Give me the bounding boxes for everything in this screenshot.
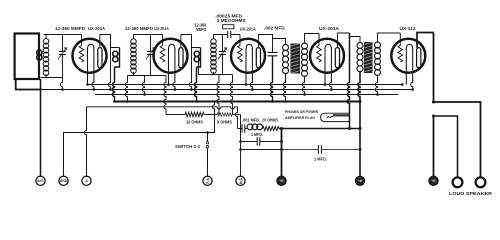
junction [109, 88, 112, 91]
V4 plate [335, 48, 339, 68]
wire plate branch [189, 48, 191, 90]
terminal +B power [429, 176, 438, 185]
wire V4 plate drop [347, 33, 349, 129]
wire tank2 drop [142, 76, 144, 95]
V2 tube envelope [154, 39, 188, 73]
loop antenna box [15, 34, 39, 80]
AFT1 secondary coil [302, 43, 308, 49]
svg-text:+B: +B [279, 179, 284, 183]
wire B power stem [433, 116, 435, 176]
wire speaker feed 2 [434, 116, 458, 177]
junction [280, 148, 283, 151]
junction [143, 93, 146, 96]
wire [232, 114, 241, 116]
V3 plate lead [258, 35, 272, 53]
V4 tube envelope [310, 39, 344, 73]
AFT2 secondary coil [375, 42, 381, 48]
svg-text:8 OHMS: 8 OHMS [217, 120, 232, 125]
V5 grid lead [399, 33, 401, 46]
RFT2 primary [197, 48, 201, 68]
RFT1 primary return [112, 67, 114, 102]
wire rheostat feed [164, 76, 166, 115]
terminal GND [59, 176, 68, 185]
bus A+ line [88, 84, 403, 86]
junction [174, 88, 177, 91]
wire [240, 115, 242, 177]
junction [432, 115, 435, 118]
wire terminal C stem [84, 107, 86, 176]
svg-text:-B: -B [239, 181, 243, 185]
coil L4 secondary [211, 39, 217, 45]
svg-text:MMFD: MMFD [196, 27, 206, 32]
junction [213, 100, 216, 103]
wire antenna lead [40, 79, 42, 176]
V3 grid [238, 46, 243, 63]
svg-text:12-360 MMFD: 12-360 MMFD [55, 26, 85, 31]
junction [432, 101, 435, 104]
AFT1 secondary to V4 grid [305, 34, 320, 44]
V1 filament [87, 48, 89, 85]
V5 grid [398, 46, 403, 63]
junction [245, 83, 248, 86]
svg-text:UX-201A: UX-201A [154, 26, 169, 31]
terminal +B det [277, 176, 286, 185]
junction [239, 148, 242, 151]
svg-text:UX-201A: UX-201A [240, 26, 257, 31]
capacitor C6 .001 MFD [238, 128, 248, 130]
AFT2 secondary to V5 grid [378, 33, 401, 42]
wire tank1 drop [60, 78, 62, 90]
wire speaker feed 1 [434, 102, 481, 177]
AFT2 primary coil [357, 43, 363, 49]
V5 tube envelope [391, 39, 425, 73]
V1 plate [98, 48, 102, 68]
wire B detector stem [281, 129, 283, 177]
V3 grid lead [239, 35, 241, 46]
junction [61, 88, 64, 91]
junction [195, 100, 198, 103]
junction [376, 93, 379, 96]
AFT1 secondary return [302, 76, 304, 95]
svg-text:+B: +B [358, 179, 363, 183]
junction [359, 148, 362, 151]
loud speaker terminal 2 [476, 177, 486, 187]
svg-text:GND: GND [60, 179, 68, 183]
wire tank3 drop [230, 75, 232, 115]
wire C5 return [270, 56, 272, 101]
wire plate feed row [279, 128, 360, 130]
AFT2 primary return and B amplifier lead [358, 72, 360, 177]
svg-text:+B: +B [431, 179, 436, 183]
junction [271, 100, 274, 103]
V3 plate [256, 48, 260, 68]
junction [359, 100, 362, 103]
junction [280, 127, 283, 130]
V3 filament [245, 48, 247, 85]
svg-text:1 MFD.: 1 MFD. [251, 132, 263, 137]
terminal +B amp [355, 176, 364, 185]
wire [133, 35, 135, 76]
svg-text:UX-112: UX-112 [400, 26, 417, 31]
V2 filament [168, 48, 170, 85]
V1 plate lead [100, 35, 120, 48]
V4 filament [324, 48, 326, 85]
wire [45, 35, 47, 78]
terminal -C [82, 176, 91, 185]
rheostat R3 8 OHMS [217, 113, 232, 117]
wire grid rail stage 1 [44, 34, 82, 36]
capacitor C5 .002 MFD [268, 52, 278, 55]
AFT1 core [291, 44, 301, 74]
RFT2 primary return [194, 67, 196, 102]
variable capacitor C1 12-360 MMFD [62, 35, 64, 52]
wire tank2 bottom [128, 75, 167, 77]
junction [206, 131, 209, 134]
junction [303, 93, 306, 96]
junction [39, 88, 42, 91]
antenna coupling coil L1 [37, 50, 42, 55]
junction [330, 88, 333, 91]
svg-text:LOUD SPEAKER: LOUD SPEAKER [449, 191, 493, 196]
bus line 5 partial [87, 107, 238, 129]
svg-text:20 OHMS: 20 OHMS [262, 118, 278, 123]
V3 tube envelope [231, 39, 265, 73]
junction [167, 83, 170, 86]
svg-text:.001 MFD.: .001 MFD. [242, 118, 260, 123]
wire plate branch [108, 48, 110, 90]
wire coil2 return [125, 76, 127, 102]
terminal +A -B [236, 176, 245, 185]
V5 plate lead [417, 33, 434, 48]
wire varcap3 drop [217, 75, 219, 115]
V2 grid [160, 46, 165, 63]
wire [213, 35, 215, 75]
terminal ANT [36, 176, 45, 185]
terminal -A +C [203, 176, 212, 185]
svg-text:ANT: ANT [37, 179, 44, 183]
junction [86, 83, 89, 86]
loud speaker terminal 1 [453, 177, 463, 187]
junction [113, 100, 116, 103]
svg-text:3 MEGOHMS: 3 MEGOHMS [217, 18, 246, 23]
V1 grid [79, 46, 84, 63]
AFT1 primary coil [283, 45, 289, 51]
resistor R4 20 OHMS [263, 126, 280, 130]
junction [324, 83, 327, 86]
capacitor C7 1 MFD [257, 137, 260, 145]
bus B+ heavy line [114, 101, 361, 103]
wire tank3 bottom [199, 56, 233, 75]
bus line 3 [95, 94, 398, 96]
V5 plate [417, 48, 421, 68]
coil L3 secondary [131, 39, 137, 45]
AFT1 primary lead [273, 39, 286, 45]
V2 plate lead [181, 35, 201, 48]
V1 grid lead [81, 35, 83, 46]
V1 tube envelope [73, 39, 107, 73]
junction [401, 83, 404, 86]
svg-text:UX-201A: UX-201A [88, 26, 106, 31]
wire [41, 77, 63, 79]
V2 grid lead [162, 35, 164, 46]
junction [126, 100, 129, 103]
wire [282, 149, 361, 151]
svg-text:10 OHMS: 10 OHMS [186, 120, 203, 125]
junction [190, 88, 193, 91]
wire [204, 114, 217, 116]
junction [239, 140, 242, 143]
RFT1 primary [115, 48, 120, 68]
junction [284, 100, 287, 103]
svg-text:SWITCH S-2: SWITCH S-2 [175, 144, 201, 149]
svg-text:.002 MFD: .002 MFD [264, 26, 285, 31]
junction [411, 88, 414, 91]
capacitor C8 1 MFD [318, 145, 321, 153]
AFT2 secondary return [375, 75, 377, 95]
wire grid rail stage 2 [134, 34, 163, 36]
AFT2 core [364, 42, 373, 73]
wire loop left leg [16, 79, 41, 90]
svg-text:1 MFD.: 1 MFD. [314, 157, 327, 162]
AFT1 primary return [283, 73, 285, 102]
svg-text:+C: +C [205, 181, 210, 185]
wire [241, 141, 282, 143]
svg-text:PHONES OR POWER: PHONES OR POWER [285, 109, 318, 114]
junction [280, 140, 283, 143]
V4 grid [317, 46, 322, 63]
svg-text:AMPLIFIER PLUG: AMPLIFIER PLUG [285, 115, 315, 120]
wire ground-switch line [64, 102, 215, 177]
coil L2 secondary [43, 39, 49, 45]
grid condenser C4 .00025 MFD [228, 31, 231, 38]
wire [241, 149, 282, 151]
choke L5 [247, 124, 253, 130]
junction [251, 88, 254, 91]
variable capacitor C2 12-360 MMFD [150, 35, 152, 52]
variable capacitor C3 12-360 MMFD [222, 35, 224, 52]
svg-text:-C: -C [85, 179, 89, 183]
wire [166, 114, 185, 116]
svg-text:UX-201A: UX-201A [319, 26, 340, 31]
junction [359, 127, 362, 130]
wire V5 plate drop upper [433, 33, 435, 103]
V4 grid lead [318, 34, 320, 46]
grid leak R1 3 MEGOHMS [223, 25, 234, 29]
wire grid rail stage 3 [214, 34, 241, 36]
V5 filament [405, 48, 407, 85]
rheostat R2 10 OHMS [185, 112, 204, 116]
junction [93, 88, 96, 91]
V4 plate lead [337, 33, 349, 48]
bus A- line [41, 89, 413, 91]
phone plug jack [321, 113, 350, 121]
svg-text:12-360 MMFD: 12-360 MMFD [125, 26, 153, 31]
V2 plate [179, 48, 183, 68]
switch S-2 [207, 133, 209, 177]
AFT2 primary lead [350, 37, 361, 43]
junction [348, 127, 351, 130]
